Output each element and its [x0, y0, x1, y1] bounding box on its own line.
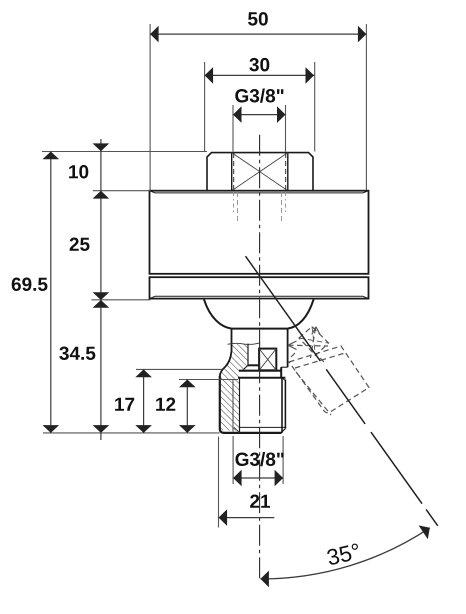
- wire: thread relief dashed below nut: [234, 192, 286, 221]
- node: arrow 10 top outside: [93, 143, 110, 151]
- node: arrow 50 left: [150, 26, 159, 43]
- node: label G3/8 bottom: [236, 452, 284, 466]
- wire: extension line 50 right: [365, 24, 367, 190]
- resistor: main body block: [150, 191, 369, 274]
- node: label 17: [115, 398, 134, 411]
- wire: swivel axis 35 deg: [246, 256, 438, 526]
- node: arrow 30 right: [306, 67, 315, 84]
- wire: dimension line G3/8 bottom: [233, 477, 283, 479]
- wire: extension line 21 left: [218, 437, 220, 528]
- diode: ghost dashed swivel position: [288, 327, 369, 416]
- transistor: hex fitting bottom: [220, 376, 286, 433]
- node: label 10: [69, 165, 88, 179]
- node: label 35 deg: [326, 543, 361, 566]
- wire: angle arc 35 deg: [260, 528, 429, 579]
- node: arrow 21 left: [219, 509, 228, 526]
- transistor: neck outline: [220, 328, 288, 377]
- wire: dimension line 69.5: [50, 152, 52, 433]
- wire: extension line 30 right: [314, 62, 316, 152]
- node: arrow 10 bottom outside: [93, 191, 110, 199]
- node: arrow G3/8 bottom left: [233, 470, 242, 487]
- node: arrow 12 top: [179, 380, 196, 388]
- node: arrow 25 bottom: [93, 292, 110, 300]
- node: ghost open arrow left: [288, 341, 297, 350]
- resistor: slot: [244, 344, 260, 370]
- node: label 69.5: [12, 278, 48, 292]
- wire: dimension line 17: [143, 369, 145, 433]
- node: arrow 17 bottom: [135, 425, 152, 433]
- node: arrow 17 top: [135, 369, 152, 377]
- node: arrow 69.5 top: [43, 152, 60, 160]
- node: arrow G3/8 bottom right: [275, 470, 284, 487]
- wire: extension line G3/8 bottom left: [232, 436, 234, 484]
- wire: extension line body top y190.7: [93, 190, 151, 192]
- node: label 50: [248, 12, 268, 26]
- node: label G3/8 top: [235, 89, 283, 103]
- wire: extension line 12 y379.5: [179, 379, 238, 381]
- transistor: X-box seat: [259, 349, 276, 371]
- wire: dimension line 21: [219, 517, 275, 519]
- node: arrow 50 right: [358, 26, 367, 43]
- wire: dimension line 50: [150, 33, 366, 35]
- wire: extension line 30 left: [204, 62, 206, 152]
- wire: dimension line 12: [186, 380, 188, 433]
- node: arc arrow right: [419, 525, 430, 539]
- node: arrow G3/8 top left: [233, 106, 242, 123]
- node: ghost open arrow up: [312, 327, 320, 335]
- node: label 12: [156, 398, 175, 411]
- node: label 21: [250, 495, 270, 508]
- wire: extension line G3/8 top left: [232, 105, 234, 152]
- wire: extension line bottom face y432.9: [43, 432, 220, 434]
- wire: extension line G3/8 top right: [285, 105, 287, 152]
- wire: extension line top face y151.5: [42, 151, 207, 153]
- node: arrow 34.5 bottom: [93, 425, 110, 433]
- resistor: flange block: [150, 277, 369, 298]
- wire: dimension line 30: [205, 74, 315, 76]
- node: arrow 12 bottom: [179, 425, 196, 433]
- diode: lower fitting section hatch: [220, 344, 248, 431]
- wire: extension line G3/8 bottom right: [282, 436, 284, 484]
- node: arrow 34.5 top: [93, 300, 110, 308]
- wire: dimension line G3/8 top: [233, 114, 286, 116]
- node: label 34.5: [59, 347, 95, 361]
- wire: extension line flange bottom y299.8: [91, 299, 150, 301]
- wire: extension line 50 left: [149, 24, 151, 190]
- node: label 30: [249, 58, 269, 72]
- node: arrow G3/8 top right: [277, 106, 286, 123]
- node: label 25: [70, 238, 90, 252]
- node: wavy break line: [228, 343, 261, 345]
- node: arc arrow bottom: [260, 571, 269, 588]
- transistor: hex nut top: [207, 153, 313, 191]
- capacitor: dome: [204, 299, 314, 328]
- node: arrow 30 left: [205, 67, 214, 84]
- node: arrow 69.5 bottom: [43, 425, 60, 433]
- wire: dimension line 10-25-34.5: [100, 139, 102, 440]
- wire: extension line 17 y369.4: [136, 368, 222, 370]
- wire: vertical centerline: [259, 135, 261, 580]
